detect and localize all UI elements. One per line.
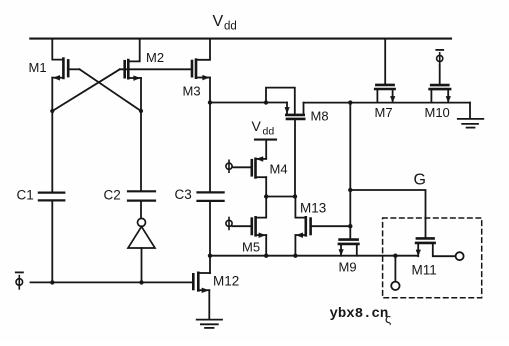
svg-text:M3: M3 — [183, 84, 201, 99]
transistor M1 — [29, 39, 69, 80]
svg-text:M8: M8 — [311, 109, 329, 124]
capacitor C3 — [175, 187, 224, 202]
wire M13 source to rail — [294, 235, 296, 256]
transistor M2 — [125, 39, 164, 81]
svg-text:M5: M5 — [242, 240, 260, 255]
phi-bar symbol at M10 — [436, 50, 443, 65]
svg-text:C2: C2 — [104, 188, 121, 203]
node dot C3/M5 rail junction — [208, 254, 212, 258]
node dot M13/rail — [293, 254, 297, 258]
capacitor C2 — [104, 188, 156, 203]
node dot M8gate/M13 — [293, 194, 297, 198]
wire M8 right along to ground drop — [304, 102, 471, 104]
wire cross-couple diagonal M2 gate to M1 source — [52, 69, 120, 111]
svg-text:ς: ς — [385, 311, 391, 326]
Vdd supply bar — [255, 139, 276, 141]
node dot M13 gate / G column — [348, 224, 352, 228]
node dot C1/phibar — [50, 280, 54, 284]
gate lead M1 — [68, 68, 79, 70]
bottom rail wire — [210, 255, 418, 257]
svg-text:M9: M9 — [339, 260, 357, 275]
svg-text:M13: M13 — [300, 201, 326, 216]
node dot inverter/phibar — [139, 280, 143, 284]
transistor M3 — [183, 39, 211, 99]
node junction dot left cross — [50, 109, 54, 113]
node G label — [414, 172, 426, 189]
Vdd rail — [30, 38, 451, 40]
transistor M9 — [339, 240, 359, 275]
transistor M7 — [375, 39, 395, 120]
wire M13 gate lead to G column — [311, 225, 351, 227]
node dot G column top — [348, 100, 352, 104]
node dot drop tee — [393, 254, 397, 258]
wire node A horizontal (M3 to M8) — [210, 102, 287, 104]
wire C3 bottom to M12 drain — [209, 201, 211, 273]
transistor M13 — [295, 197, 326, 238]
wire to right ground — [469, 103, 471, 119]
inverter (bubble + triangle) — [128, 218, 155, 248]
node G wire — [350, 190, 425, 238]
wire cross-couple diagonal M1 gate to M2 source — [80, 69, 142, 111]
wire M8 gate down to M4/M13 junction — [294, 119, 296, 197]
svg-text:M7: M7 — [375, 105, 393, 120]
watermark ybx8.cn — [330, 306, 392, 326]
ground (below M12) — [197, 320, 222, 328]
svg-text:M1: M1 — [29, 60, 47, 75]
svg-text:C1: C1 — [17, 188, 34, 203]
terminal circle lower — [391, 282, 399, 290]
svg-text:G: G — [414, 172, 426, 189]
phi-bar symbol bottom left — [16, 272, 23, 289]
wire inverter input down to phibar rail — [141, 248, 143, 282]
wire M12 source to ground — [208, 290, 210, 319]
svg-text:dd: dd — [224, 21, 237, 33]
capacitor C1 — [17, 188, 65, 203]
wire drop to lower terminal — [394, 256, 396, 282]
svg-text:M11: M11 — [412, 263, 437, 278]
wire M5 source to rail — [265, 235, 267, 256]
svg-text:M12: M12 — [213, 274, 239, 289]
phi symbol at M5 — [226, 218, 232, 230]
svg-text:M2: M2 — [146, 50, 164, 65]
transistor M8 — [285, 103, 329, 124]
wire M3 source down to C3 — [209, 78, 211, 193]
terminal circle output right — [456, 252, 464, 260]
svg-text:V: V — [252, 118, 262, 134]
transistor M12 — [193, 273, 239, 293]
wire Vdd bar to M4 — [265, 140, 267, 159]
svg-text:dd: dd — [263, 126, 275, 138]
transistor M10 — [425, 65, 451, 120]
Vdd label (second supply) — [252, 118, 275, 138]
node dot M3/M8 wire — [208, 100, 212, 104]
ground (top right) — [458, 119, 484, 128]
wire G column vertical — [349, 103, 351, 239]
node junction dot right cross — [139, 109, 143, 113]
Vdd label — [213, 13, 237, 33]
wire M8 bulk loop — [266, 88, 295, 114]
svg-text:M4: M4 — [270, 162, 288, 177]
transistor M11 — [412, 238, 456, 277]
transistor M5 — [232, 197, 266, 255]
wire C2 bottom to inverter bubble — [140, 202, 142, 219]
svg-text:ybx8.cn: ybx8.cn — [330, 306, 389, 322]
transistor M4 — [232, 157, 287, 178]
wire junction row — [266, 196, 295, 198]
svg-text:M10: M10 — [425, 105, 450, 120]
node dot M4/M5 — [264, 194, 268, 198]
node dot loop tap — [264, 100, 268, 104]
phibar rail wire — [31, 281, 194, 283]
phi symbol at M4 — [226, 160, 232, 172]
svg-text:C3: C3 — [175, 187, 192, 202]
wire C1 bottom to phibar rail — [51, 202, 53, 283]
svg-text:V: V — [213, 13, 224, 30]
dashed box — [383, 218, 482, 298]
wire M4 source to junction row — [265, 177, 267, 196]
wire M2 gate to M3 gate — [120, 68, 192, 70]
node dot M5/rail — [264, 254, 268, 258]
wire M2 source down to C2 — [140, 78, 142, 190]
wire M1 source down to C1 — [51, 78, 53, 192]
node dot G tee — [348, 188, 352, 192]
